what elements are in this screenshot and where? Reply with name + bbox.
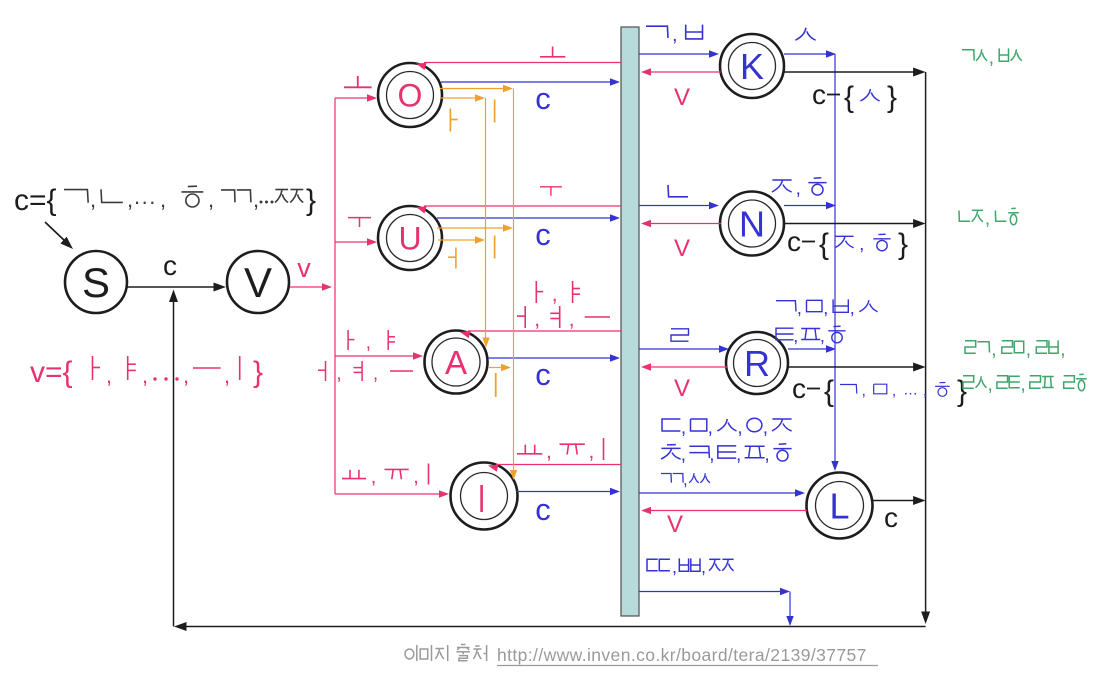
label green gs,bs: [962, 50, 974, 61]
svg-text:{: {: [824, 375, 834, 408]
label a-vowel orange at O: [449, 109, 451, 132]
svg-text:c: c: [535, 492, 551, 527]
state U: [378, 206, 442, 270]
edge K to bar V: [650, 71, 721, 73]
svg-text:v={: v={: [30, 356, 73, 389]
edge U to A-column lower orange: [438, 239, 477, 241]
edge A to I-column orange: [488, 367, 503, 369]
label dd,bb,jj on bottom edge: [647, 559, 658, 570]
svg-text:,: ,: [373, 363, 378, 384]
svg-text:,: ,: [850, 298, 855, 318]
svg-text:c: c: [884, 502, 898, 533]
teal separator bar: [621, 27, 639, 616]
svg-text:{: {: [844, 81, 854, 114]
svg-text:c: c: [792, 373, 806, 404]
svg-text:V: V: [244, 259, 272, 306]
label o-vowel on O entry: [357, 76, 359, 87]
c return vertical wire: [173, 294, 175, 627]
svg-text:}: }: [253, 356, 263, 389]
svg-text:,: ,: [681, 444, 686, 465]
svg-text:,: ,: [546, 440, 552, 463]
svg-text:,: ,: [1026, 339, 1031, 360]
svg-text:L: L: [829, 486, 849, 527]
arrow from header to S: [45, 222, 66, 242]
label o-vowel on O return: [552, 47, 554, 57]
svg-text:c: c: [535, 81, 551, 116]
edge R to L-column: [788, 348, 828, 350]
label green lg,lm,lb: [965, 341, 976, 353]
svg-text:,: ,: [90, 187, 96, 212]
svg-text:,: ,: [371, 466, 377, 488]
label a-vowels row1 on A entry: [347, 330, 349, 350]
svg-text:...: ...: [134, 184, 157, 209]
svg-text:,: ,: [208, 187, 214, 212]
edge trunk to A: [335, 355, 414, 357]
svg-text:,: ,: [681, 417, 686, 438]
svg-text:V: V: [667, 511, 683, 538]
caption korean 'image source': [405, 649, 414, 659]
edge I to bar c: [516, 491, 611, 493]
svg-text:,: ,: [253, 187, 259, 212]
svg-text:,: ,: [793, 326, 798, 346]
edge S to V wire: [127, 286, 217, 288]
label u-vowel on U entry: [348, 217, 371, 219]
state R: [726, 332, 788, 394]
svg-text:,: ,: [413, 466, 419, 488]
edge N to L-column: [784, 205, 828, 207]
edge O to I-column upper orange: [440, 88, 505, 90]
label i-vowels on I entry: [349, 470, 351, 479]
edge R to bar V: [650, 366, 727, 368]
svg-text:,: ,: [763, 417, 768, 438]
label consonants row3 on bar-L edge: [661, 474, 671, 483]
L-column vertical wire: [834, 54, 836, 462]
label green nj,nh: [959, 211, 970, 222]
label a-vowels row2 on A return: [524, 306, 526, 328]
svg-text:v: v: [297, 253, 311, 283]
edge K to L-column: [784, 53, 828, 55]
red trunk vertical: [334, 98, 336, 494]
svg-text:O: O: [398, 78, 423, 114]
svg-text:,: ,: [988, 374, 993, 395]
label consonants row1 on R out: [776, 301, 796, 312]
svg-text:,: ,: [862, 383, 866, 400]
svg-text:c: c: [535, 357, 551, 392]
red header vowel jamo: [92, 356, 94, 380]
edge trunk to I: [335, 493, 440, 495]
label i-vowel orange at O: [494, 100, 496, 123]
svg-text:,: ,: [820, 326, 825, 346]
label j,h on N out: [772, 179, 791, 181]
svg-text:,: ,: [552, 283, 558, 306]
svg-text:,: ,: [985, 208, 990, 229]
state V: [227, 251, 289, 313]
bottom horizontal wire: [182, 626, 926, 628]
svg-text:,: ,: [683, 470, 688, 489]
svg-text:http://www.inven.co.kr/board/t: http://www.inven.co.kr/board/tera/2139/3…: [497, 645, 867, 665]
state L: [807, 473, 873, 539]
svg-text:,: ,: [764, 444, 769, 465]
edge L to rail: [872, 500, 917, 502]
svg-text:c={: c={: [14, 184, 57, 217]
state S: [65, 251, 127, 313]
svg-text:,: ,: [336, 363, 341, 384]
svg-text:,: ,: [708, 417, 713, 438]
svg-text:{: {: [819, 228, 829, 261]
edge trunk to U: [335, 241, 368, 243]
svg-text:,: ,: [142, 363, 148, 388]
state O: [378, 63, 442, 127]
svg-text:,: ,: [1060, 339, 1065, 360]
svg-text:}: }: [306, 184, 316, 217]
svg-text:,: ,: [796, 178, 801, 199]
svg-text:,: ,: [859, 234, 864, 254]
svg-text:c: c: [812, 79, 826, 110]
edge N to bar V: [650, 223, 721, 225]
svg-text:A: A: [445, 344, 467, 381]
svg-text:,: ,: [534, 308, 540, 331]
svg-text:,: ,: [923, 383, 927, 400]
orange vertical to I: [513, 89, 515, 471]
edge K to rail: [783, 71, 917, 73]
svg-text:}: }: [957, 375, 967, 408]
edge trunk to O: [335, 97, 368, 99]
svg-text:U: U: [398, 221, 421, 257]
edge N to rail: [784, 223, 917, 225]
orange vertical to A: [485, 98, 487, 338]
edge bar to K: [639, 53, 710, 55]
edge R to rail: [788, 366, 917, 368]
label eo-vowel orange at U: [455, 248, 457, 269]
svg-text:V: V: [674, 235, 690, 262]
header consonant jamo: [64, 190, 88, 203]
caption url underline: [497, 665, 878, 667]
edge V to trunk: [290, 286, 323, 288]
svg-text:,: ,: [991, 339, 996, 360]
svg-text:,: ,: [224, 363, 230, 388]
svg-text:,: ,: [569, 308, 575, 331]
svg-text:V: V: [674, 84, 690, 111]
svg-text:,: ,: [366, 332, 371, 353]
state N: [720, 192, 784, 256]
edge bar to A return: [468, 330, 621, 332]
edge O to bar c: [441, 81, 611, 83]
label i-vowel orange at U: [494, 236, 496, 259]
svg-text:,: ,: [797, 298, 802, 318]
svg-text:,: ,: [1020, 374, 1025, 395]
edge bar to U return: [424, 205, 621, 207]
edge bar to O return: [424, 62, 621, 64]
label g,b on bar-K edge: [646, 26, 668, 38]
svg-text:,: ,: [127, 187, 133, 212]
svg-text:,: ,: [892, 383, 896, 400]
svg-text:V: V: [674, 375, 690, 402]
svg-text:c: c: [787, 226, 801, 257]
label r on bar-R edge: [671, 329, 689, 341]
state A: [425, 331, 488, 394]
svg-text:,: ,: [701, 557, 706, 577]
svg-text:}: }: [887, 81, 897, 114]
svg-text:,: ,: [672, 24, 678, 46]
svg-text:,: ,: [106, 363, 112, 388]
svg-text:,: ,: [737, 417, 742, 438]
edge bar to L: [639, 492, 796, 494]
state K: [720, 34, 784, 98]
label consonants row2 on bar-L edge: [667, 444, 676, 446]
right rail vertical wire: [925, 72, 927, 614]
label s on K out: [795, 28, 806, 40]
label n on bar-N edge: [668, 185, 688, 197]
svg-text:c: c: [163, 250, 177, 281]
svg-text:,: ,: [160, 187, 166, 212]
svg-text:N: N: [739, 204, 765, 245]
svg-text:K: K: [740, 46, 764, 87]
label u-vowel on U return: [540, 186, 562, 188]
edge bar to bottom double consonants: [639, 591, 781, 593]
svg-text:S: S: [82, 259, 110, 306]
label a-vowels row1 on A return: [535, 281, 537, 303]
label consonants row2 on R out: [776, 328, 794, 340]
svg-text:...: ...: [904, 381, 918, 398]
edge O to A-column lower orange: [440, 97, 477, 99]
label green ls,lt,lp,lh: [963, 376, 974, 388]
label a-vowels row2 on A entry: [325, 361, 327, 381]
label i-vowel orange at A: [495, 373, 497, 397]
svg-text:c: c: [535, 217, 551, 252]
edge bar to R: [639, 348, 720, 350]
svg-text:R: R: [744, 343, 770, 384]
svg-text:,: ,: [736, 444, 741, 465]
label consonants row1 on bar-L edge: [662, 419, 680, 431]
svg-text:,: ,: [989, 47, 994, 68]
svg-text:,: ,: [672, 557, 677, 577]
edge bar to I return: [496, 464, 621, 466]
edge A to bar c: [488, 357, 611, 359]
svg-text:,: ,: [183, 363, 189, 388]
edge bar to N: [639, 205, 710, 207]
svg-text:,: ,: [823, 298, 828, 318]
edge L to bar V: [650, 510, 807, 512]
svg-text:,: ,: [589, 440, 595, 463]
edge U to bar c: [437, 217, 611, 219]
svg-text:,: ,: [709, 444, 714, 465]
state I: [451, 463, 518, 530]
edge U to I-column upper orange: [437, 227, 505, 229]
svg-text:}: }: [898, 228, 908, 261]
label i-vowels on I return: [524, 445, 526, 454]
